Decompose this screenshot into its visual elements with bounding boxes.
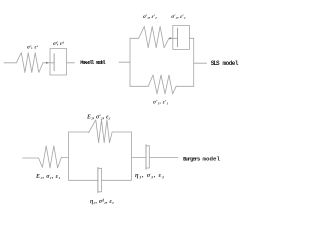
svg-text:E₂, σ′₂, ε₂: E₂, σ′₂, ε₂ (86, 114, 111, 120)
svg-text:σ′₂, ε′₂: σ′₂, ε′₂ (171, 14, 186, 20)
svg-text:σ′₁, ε′₁: σ′₁, ε′₁ (153, 100, 169, 106)
svg-text:σ′₂, ε′₂: σ′₂, ε′₂ (143, 14, 157, 20)
svg-text:σᵈ, εᵈ: σᵈ, εᵈ (53, 41, 64, 47)
svg-text:model: model (96, 60, 107, 66)
svg-text:model: model (223, 60, 239, 67)
svg-text:η₂, σᵈ₂, ε₂: η₂, σᵈ₂, ε₂ (90, 199, 114, 205)
svg-text:Burgers: Burgers (183, 155, 201, 162)
svg-text:model: model (203, 155, 221, 162)
svg-text:η₃, σ₃, ε₃: η₃, σ₃, ε₃ (135, 172, 164, 179)
svg-text:σˢ, εˢ: σˢ, εˢ (27, 44, 39, 50)
svg-text:Maxwell: Maxwell (80, 60, 95, 66)
svg-text:SLS: SLS (211, 60, 220, 67)
svg-text:E₁, σ₁, ε₁: E₁, σ₁, ε₁ (35, 174, 61, 180)
